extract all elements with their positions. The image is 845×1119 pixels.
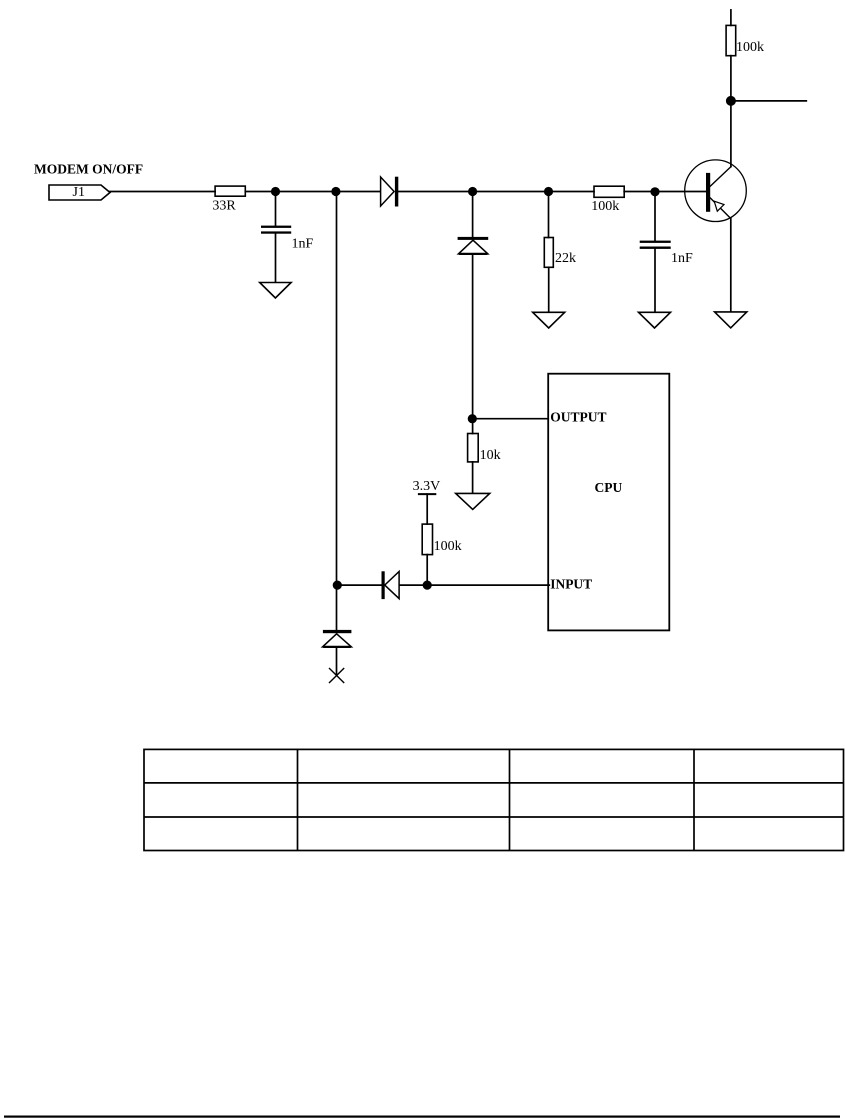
svg-text:100k: 100k: [736, 40, 764, 55]
svg-text:CPU: CPU: [595, 480, 623, 495]
svg-text:100k: 100k: [591, 199, 619, 214]
svg-text:10k: 10k: [480, 448, 501, 463]
svg-text:22k: 22k: [555, 251, 576, 266]
svg-text:MODEM ON/OFF: MODEM ON/OFF: [34, 162, 143, 177]
svg-text:INPUT: INPUT: [550, 577, 592, 592]
svg-text:1nF: 1nF: [292, 237, 314, 252]
svg-text:100k: 100k: [434, 539, 462, 554]
svg-text:OUTPUT: OUTPUT: [550, 410, 606, 425]
svg-text:3.3V: 3.3V: [413, 479, 441, 494]
svg-text:33R: 33R: [212, 199, 236, 214]
svg-text:1nF: 1nF: [671, 251, 693, 266]
svg-text:J1: J1: [73, 185, 85, 200]
